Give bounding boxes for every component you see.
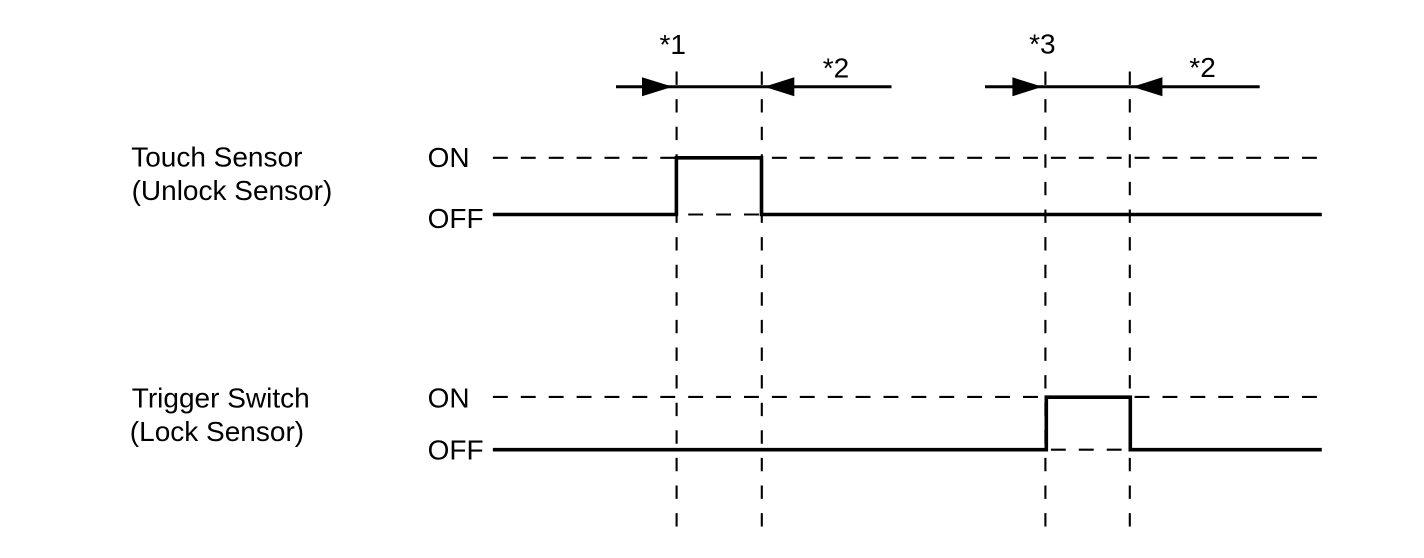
dimension arrow line A: [616, 85, 892, 88]
svg-text:Touch Sensor: Touch Sensor: [131, 142, 302, 173]
vertical dashed line 2 (pulse 1 fall): [761, 72, 763, 527]
dashed OFF level line, signal 2: [493, 449, 1318, 451]
dashed OFF level line, signal 1: [493, 213, 1318, 215]
arrowhead B right-pointing: [1012, 77, 1042, 96]
signal 2 trace: trigger switch with pulse: [493, 397, 1322, 450]
dashed ON level line, signal 2: [493, 396, 1318, 398]
vertical dashed line 4 (pulse 2 fall): [1129, 72, 1131, 527]
svg-text:OFF: OFF: [428, 203, 484, 234]
svg-text:(Unlock Sensor): (Unlock Sensor): [132, 175, 333, 206]
svg-text:*2: *2: [823, 53, 849, 84]
signal 1 trace: touch sensor with pulse: [493, 158, 1322, 215]
svg-text:Trigger Switch: Trigger Switch: [132, 382, 310, 413]
svg-text:(Lock Sensor): (Lock Sensor): [130, 416, 304, 447]
svg-text:*2: *2: [1189, 52, 1215, 83]
dashed ON level line, signal 1: [493, 157, 1318, 159]
dimension arrow line B: [985, 85, 1260, 88]
vertical dashed line 3 (pulse 2 rise): [1044, 72, 1046, 527]
vertical dashed line 1 (pulse 1 rise): [676, 72, 678, 527]
arrowhead A right-pointing: [642, 77, 673, 96]
svg-text:*1: *1: [660, 29, 686, 60]
svg-text:OFF: OFF: [428, 435, 484, 466]
svg-text:*3: *3: [1029, 28, 1055, 59]
svg-text:ON: ON: [428, 142, 470, 173]
arrowhead B left-pointing: [1132, 77, 1162, 96]
arrowhead A left-pointing: [764, 77, 794, 96]
svg-text:ON: ON: [428, 383, 470, 414]
